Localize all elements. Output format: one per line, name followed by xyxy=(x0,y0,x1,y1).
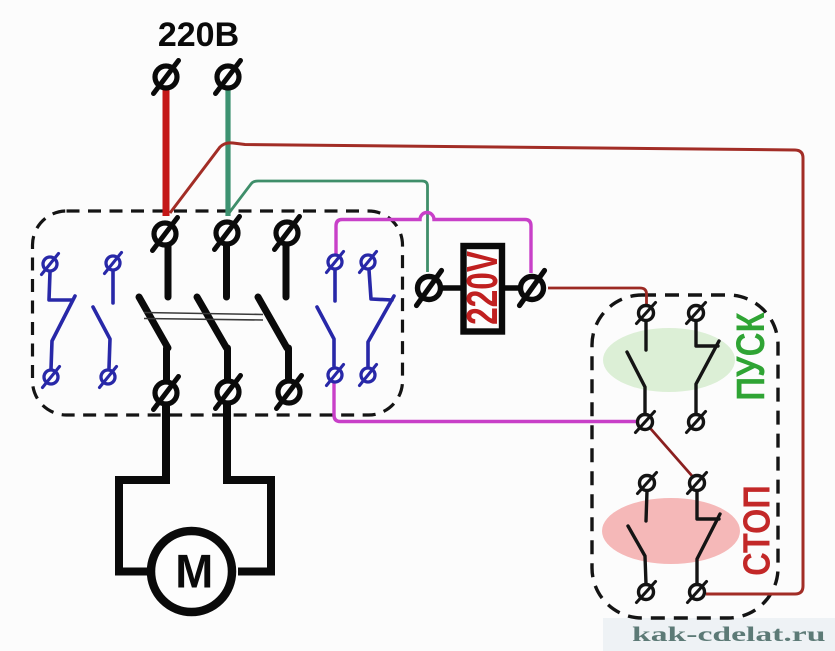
main terminal L1 top xyxy=(153,218,178,251)
svg-text:220В: 220В xyxy=(158,16,239,54)
svg-text:ПУСК: ПУСК xyxy=(728,312,772,401)
start terminal bottom-left xyxy=(636,412,655,433)
wire L feed (thick red) xyxy=(163,88,170,216)
start terminal top-left xyxy=(637,303,656,324)
wire magenta: coil to aux contact (with hop over green) xyxy=(336,213,531,274)
stop terminal top-right xyxy=(688,473,707,494)
stop button contact right (NC) xyxy=(697,491,720,584)
wire maroon: start to stop diagonal xyxy=(650,428,693,477)
main contact L1 xyxy=(139,246,168,380)
stop terminal top-left xyxy=(638,473,657,494)
wire red: phase to stop-button loop xyxy=(170,143,803,594)
supply terminal N xyxy=(216,61,241,94)
stop terminal bottom-left xyxy=(637,582,656,603)
coil stub right xyxy=(501,285,522,291)
aux terminal KM1.2 top xyxy=(105,253,122,274)
coil KM1 box xyxy=(464,246,503,332)
svg-text:М: М xyxy=(175,545,213,598)
supply terminal L xyxy=(154,61,179,94)
wire magenta: aux contact to start button xyxy=(334,382,638,422)
svg-text:kak-cdelat.ru: kak-cdelat.ru xyxy=(632,623,825,646)
wire red: coil to start button xyxy=(548,288,647,304)
stop terminal bottom-right xyxy=(688,582,707,603)
main contact L3 xyxy=(258,246,289,379)
aux contact KM1.4 NC xyxy=(368,270,394,366)
aux contact KM1.1 NC (left) xyxy=(49,272,75,369)
contactor box (dashed) xyxy=(33,211,403,415)
aux contact KM1.3 NO (right) xyxy=(317,270,335,366)
aux terminal KM1.3 bottom xyxy=(327,365,344,386)
start terminal bottom-right xyxy=(687,412,706,433)
linkage bar xyxy=(144,313,263,321)
main terminal L3 top xyxy=(275,217,300,250)
aux terminal KM1.3 top xyxy=(327,252,344,273)
main terminal L2 top xyxy=(215,217,240,250)
wire N feed (thick green) xyxy=(225,88,230,216)
wire green: N to coil xyxy=(229,181,428,272)
aux terminal KM1.4 top xyxy=(360,252,377,273)
coil terminal right xyxy=(520,271,545,306)
coil stub left xyxy=(440,285,464,291)
aux contact KM1.2 NO xyxy=(93,271,113,368)
start button contact right (NC) xyxy=(696,321,719,413)
svg-text:СТОП: СТОП xyxy=(736,485,778,576)
motor M circle xyxy=(151,531,232,612)
svg-text:220V: 220V xyxy=(458,251,507,325)
coil terminal left xyxy=(417,271,442,306)
wire to motor (right) xyxy=(227,398,271,572)
wire to motor (left) xyxy=(119,398,166,572)
start button contact left (NO) xyxy=(627,321,646,413)
start button highlight ellipse xyxy=(603,328,735,392)
bottom-right pale blue band xyxy=(603,618,835,651)
main contact L2 xyxy=(197,246,228,379)
aux terminal KM1.2 bottom xyxy=(100,367,117,388)
main terminal L1 bottom xyxy=(154,377,179,410)
stop button highlight ellipse xyxy=(602,498,740,564)
main terminal L3 bottom xyxy=(277,376,302,409)
aux terminal KM1.1 bottom xyxy=(43,367,60,388)
stop button contact left (NO) xyxy=(628,491,647,584)
buttons box (dashed) xyxy=(592,295,778,618)
aux terminal KM1.4 bottom xyxy=(360,365,377,386)
aux terminal KM1.1 top xyxy=(42,254,59,275)
start terminal top-right xyxy=(687,303,706,324)
main terminal L2 bottom xyxy=(216,376,241,409)
